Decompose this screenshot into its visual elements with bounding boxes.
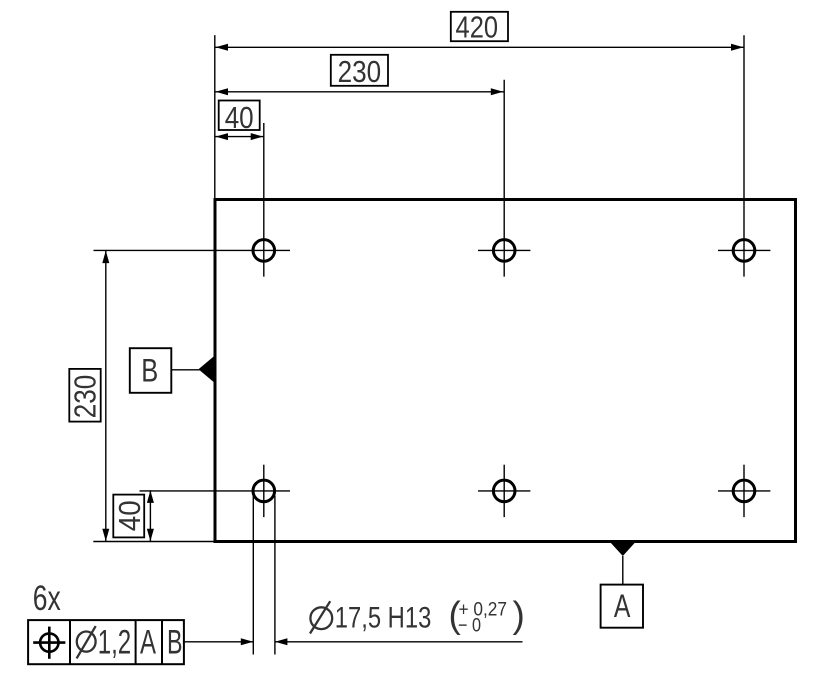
- svg-text:230: 230: [338, 55, 382, 89]
- dimension 40 vertical label box: [113, 495, 144, 538]
- dimension 40 vertical arrow top: [147, 490, 154, 503]
- feature control frame: [28, 620, 184, 664]
- crosshair H2: [478, 249, 530, 251]
- datum A leader: [622, 556, 624, 585]
- dimension 40 label box: [219, 101, 260, 131]
- svg-text:A: A: [614, 588, 631, 624]
- dimension 420 arrow right: [731, 44, 744, 51]
- hole H1 top-left: [253, 240, 275, 262]
- svg-text:230: 230: [69, 375, 103, 419]
- svg-text:A: A: [140, 623, 156, 661]
- svg-text:1,2: 1,2: [98, 623, 132, 661]
- datum B box: [130, 348, 172, 393]
- crosshair H5: [478, 490, 530, 492]
- dimension 230 label box: [331, 55, 388, 86]
- datum A triangle: [610, 542, 636, 556]
- dimension 420 label box: [451, 12, 508, 41]
- dimension 230 vertical label box: [69, 369, 100, 422]
- dimension 40 vertical line: [149, 490, 151, 541]
- datum B triangle: [199, 355, 217, 385]
- dimension 40 line: [215, 136, 263, 138]
- datum A box: [601, 585, 643, 628]
- hole H6 bottom-right: [733, 480, 755, 502]
- svg-text:B: B: [167, 623, 183, 661]
- crosshair H6: [718, 490, 770, 492]
- dimension 230 vertical arrow bottom: [102, 529, 109, 542]
- diameter dim arrow right: [275, 638, 288, 645]
- hole H5 bottom-middle: [493, 480, 515, 502]
- svg-text:420: 420: [456, 10, 499, 44]
- dimension 40 vertical arrow bottom: [147, 529, 154, 542]
- svg-text:40: 40: [113, 500, 147, 531]
- hole H3 top-right: [733, 240, 755, 262]
- datum B leader: [171, 369, 200, 371]
- hole edge extension line left: [252, 496, 254, 655]
- svg-text:6x: 6x: [33, 579, 61, 618]
- annotation hole size Ø17,5 H13: [310, 607, 332, 629]
- hole H2 top-middle: [493, 240, 515, 262]
- position symbol: [40, 633, 58, 651]
- svg-text:): ): [513, 595, 525, 636]
- dimension 230 arrow right: [491, 88, 504, 95]
- dimension 230 line: [215, 91, 504, 93]
- dimension 40 arrow right: [251, 133, 264, 140]
- svg-text:− 0: − 0: [458, 614, 481, 636]
- dimension 40 arrow left: [216, 133, 229, 140]
- svg-text:17,5 H13: 17,5 H13: [335, 602, 432, 635]
- tolerance value Ø1,2: [77, 632, 96, 652]
- leader line right segment: [275, 641, 523, 643]
- leader line from frame: [184, 641, 253, 643]
- hole H4 bottom-left: [253, 480, 275, 502]
- svg-text:B: B: [141, 353, 158, 389]
- dimension 230 arrow left: [216, 88, 229, 95]
- extension line bottom-left (plate bottom edge to left): [93, 541, 216, 543]
- extension line left (plate top-left corner up): [214, 35, 216, 199]
- hole edge extension line right: [274, 496, 276, 655]
- diameter dim arrow left: [241, 638, 254, 645]
- crosshair H3: [718, 249, 770, 251]
- dimension 420 arrow left: [216, 44, 229, 51]
- plate outline: [215, 200, 796, 542]
- svg-text:40: 40: [225, 101, 254, 135]
- dimension 230 vertical line: [105, 250, 107, 541]
- dimension 230 vertical arrow top: [102, 251, 109, 264]
- dimension 420 line: [215, 46, 744, 48]
- crosshair H4 + extension line bottom hole row: [140, 490, 291, 492]
- crosshair H1 + extension line top hole row: [94, 249, 291, 251]
